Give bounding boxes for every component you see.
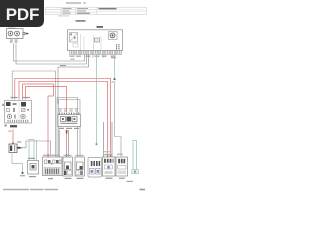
header right cell text (affectation des ordres) [99,8,117,9]
red wire tips [107,154,108,157]
red bus wire 4 [26,87,67,113]
small note line under table [58,15,69,16]
component C3 pin labels [11,97,18,98]
C2 left inner connector box [70,33,78,43]
C1 pin labels below [10,40,18,43]
black wires to B8 [103,122,105,157]
component C1 box (double connector) [7,29,24,39]
C1 connector circle 1 [8,31,13,36]
relay B1 box [9,144,17,153]
C2 pin comb [70,51,122,55]
C2 right inner connector box [109,32,118,40]
grey wire into B2 [36,140,38,161]
C4 cell 1 [61,117,66,122]
footer page number [140,189,146,191]
red bus wire 3 [23,84,54,155]
green hoop component right [133,141,137,171]
grey wire C4 to B4 [59,130,61,157]
C3 connector circle 2 [21,114,25,118]
C3 fuse dark block 2 [21,102,26,107]
C3 bottom tick row [8,120,29,123]
B1 plug arm [17,147,21,149]
C4 text row [61,123,78,124]
C1 right pin [23,32,25,35]
wire C1 pin1 to C2 [14,44,85,62]
green wire B1 to ground [12,153,23,172]
wire label left of hoop [17,141,22,142]
C2 inner hairlines [81,34,102,50]
C1 arrow terminal [27,33,30,35]
wire from C1 pin to arrow [25,33,27,35]
wire bridge 2 B4 to B6 over C4 [59,100,81,158]
C3 middle glyphs [7,109,10,112]
C4 pin tick row [59,113,79,115]
red bus wire 1 [15,78,111,155]
C3 fuse dark block 1 [6,102,11,106]
C1 connector circle 2 [15,31,20,36]
C4 cell 2 dark [67,117,72,122]
C2 center small box [95,38,100,42]
component C4 box (switch unit) [58,115,81,127]
B7 blue glyph 1 [90,169,95,175]
component B9 box [116,157,128,176]
component B2 box [28,161,39,175]
component C3 box (fuse unit) [5,101,32,124]
green hoop into B2 [29,140,34,161]
footer url text [3,189,29,190]
grey bus C3 to B4 [12,71,55,157]
C4 label below [59,128,79,129]
B7 blue glyph 2 [96,169,101,175]
green relay terminal box [132,170,139,174]
C3 connector circle 1 [7,114,11,118]
word principe [76,20,86,22]
component C2 label BB [97,26,104,28]
component B6 labels [76,155,84,156]
green wire end tick [114,78,116,80]
wire bridge B4 to B6 over C4 [57,98,78,158]
black wire C4 to B5 [68,130,70,157]
wire C2 to C4 [58,55,89,104]
header table cell texts [63,8,91,14]
component B6 box [75,157,85,176]
B4 label below [48,178,53,179]
component B7 box (switch bank) [88,158,102,178]
wire labels near bus [71,59,75,60]
grey wire to B9 [115,83,122,157]
component B8 box [103,157,116,176]
green wire long [96,55,98,144]
component B5 labels [64,155,72,156]
C4 cell 3 [72,117,77,122]
component B4 box [43,157,63,176]
PDF badge [0,0,44,27]
component B8 labels [103,154,112,155]
green wire from C2 right [114,55,116,79]
print header title text [66,2,81,3]
svg-text:PDF: PDF [6,5,39,24]
ground terminal [22,172,24,174]
component C4 pin labels [58,108,79,111]
component C1 label [8,28,16,29]
red bus wire 2 [19,81,108,155]
red wire C3 to B1 [12,130,14,145]
component C2 box (control unit) [68,30,123,51]
C3 bottom label and bar [5,125,7,127]
red wire C4 to B5 [66,130,68,156]
wire C1 pin2 to C2 [16,44,87,65]
component B5 box [63,157,73,176]
grey link B1 arm to B4 [23,141,50,155]
component B4 labels above [43,155,60,156]
component B9 labels [117,154,123,155]
C2 pin dot block [116,44,120,49]
B4 striped bottom block [44,168,60,176]
C2 pin labels below [70,56,116,57]
header table frame [46,7,147,14]
